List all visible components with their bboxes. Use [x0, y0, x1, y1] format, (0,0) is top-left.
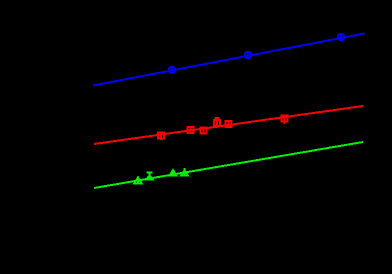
red point 4 error bar	[216, 118, 218, 128]
red point 5 square	[226, 121, 232, 127]
red point 5 error bar	[228, 120, 230, 128]
red point 6 square	[282, 116, 288, 122]
red point 1 error bar	[160, 132, 162, 140]
blue fit line	[93, 34, 365, 86]
green point 2 error bar top cap	[147, 172, 153, 174]
green point 4 triangle	[181, 170, 188, 175]
blue point 3 error bar	[340, 34, 342, 38]
green point 2 triangle	[146, 175, 152, 179]
red point 3 error bar	[202, 127, 204, 134]
red point 4 square	[214, 120, 220, 126]
green point 1 error bar	[137, 178, 139, 185]
green point 2 error bar	[149, 172, 151, 179]
red point 6 error bar	[284, 115, 286, 125]
red point 4 error bar top cap	[215, 117, 220, 119]
red point 2 square	[188, 127, 194, 133]
blue point 2 circle	[245, 52, 251, 58]
red point 3 square	[200, 127, 206, 133]
green fit line	[94, 142, 363, 188]
blue point 1 error bar	[171, 66, 173, 70]
red point 2 error bar	[190, 126, 192, 134]
green point 1 triangle	[134, 177, 142, 183]
green point 4 error bar	[184, 168, 186, 175]
red fit line	[94, 106, 363, 144]
blue point 3 circle	[338, 34, 344, 40]
blue point 1 circle	[169, 67, 175, 73]
red point 1 square	[158, 133, 164, 139]
blue point 2 error bar	[247, 52, 249, 56]
green point 3 triangle	[170, 170, 177, 176]
